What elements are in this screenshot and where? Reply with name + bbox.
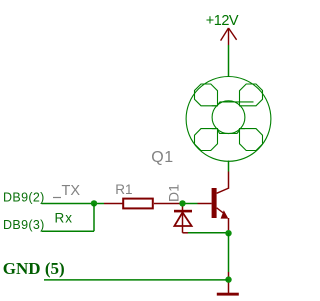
svg-text:+12V: +12V — [206, 13, 239, 29]
wire Rx vertical — [93, 204, 95, 232]
power arrow symbol — [221, 28, 237, 45]
collector pin — [228, 172, 230, 189]
ground symbol — [217, 293, 239, 296]
wire +12V to motor — [228, 45, 230, 77]
resistor R1 — [123, 199, 153, 209]
coil stub UL — [212, 105, 216, 107]
coil stub LL — [212, 128, 216, 130]
base wire green middle — [184, 203, 198, 205]
wire diode to emitter — [188, 232, 229, 234]
gnd pin maroon — [228, 272, 230, 293]
transistor Q1 — [212, 188, 229, 230]
coil link top — [218, 102, 254, 105]
base pin maroon — [198, 203, 212, 205]
junction TX/Rx — [91, 200, 97, 206]
svg-text:TX: TX — [62, 183, 81, 199]
svg-text:D1: D1 — [166, 184, 182, 202]
diode D1 — [174, 205, 192, 233]
motor coil upper-left — [195, 84, 218, 106]
wire emitter to gnd — [228, 233, 230, 272]
svg-text:DB9(2): DB9(2) — [3, 190, 45, 204]
TX tick — [53, 197, 61, 199]
wire TX net — [42, 203, 105, 205]
junction dot on base wire — [179, 200, 185, 206]
wire Rx horizontal — [42, 230, 95, 232]
base wire maroon from R1 — [154, 203, 184, 205]
svg-text:Q1: Q1 — [151, 149, 173, 166]
motor outer circle — [186, 77, 271, 162]
junction dot gnd — [225, 276, 231, 282]
motor inner circle — [212, 101, 245, 134]
wire gnd horizontal — [44, 279, 229, 281]
motor M1 — [186, 77, 271, 162]
wire diode anode maroon — [183, 232, 189, 234]
motor coil lower-right — [240, 129, 263, 151]
wire motor to collector — [228, 161, 230, 172]
svg-text:R1: R1 — [115, 182, 132, 197]
motor coil upper-right — [240, 84, 263, 106]
svg-text:Rx: Rx — [55, 211, 74, 226]
coil stub LR — [241, 128, 246, 130]
svg-text:DB9(3): DB9(3) — [3, 218, 45, 232]
svg-text:GND (5): GND (5) — [3, 259, 65, 278]
R1 left pin — [104, 203, 123, 205]
motor coil lower-left — [195, 129, 218, 151]
junction dot emitter — [225, 230, 231, 236]
coil link bottom — [218, 130, 240, 133]
